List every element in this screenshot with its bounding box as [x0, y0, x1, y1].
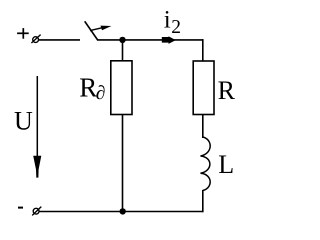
- svg-text:R: R: [218, 76, 236, 105]
- wire right vertical corner to R: [202, 39, 204, 61]
- svg-text:i: i: [164, 7, 171, 34]
- resistor Rd: [111, 61, 132, 115]
- svg-text:∂: ∂: [96, 83, 106, 104]
- terminal negative: [32, 207, 41, 216]
- resistor R: [193, 61, 214, 115]
- label + (plus of source): [17, 28, 29, 39]
- label - (minus of source): [18, 207, 23, 209]
- terminal positive: [31, 35, 40, 43]
- switch S blade: [85, 21, 98, 40]
- svg-text:U: U: [14, 106, 33, 135]
- switch closing arrow: [90, 26, 111, 31]
- wire R to inductor: [202, 115, 204, 139]
- current arrow i2: [162, 36, 176, 44]
- voltage arrow U: [33, 76, 41, 178]
- node junction top: [119, 37, 125, 43]
- node junction bottom: [120, 208, 126, 214]
- inductor L: [201, 137, 211, 191]
- svg-text:R: R: [79, 72, 97, 102]
- wire from switch to top-right corner: [97, 39, 203, 41]
- wire junction to Rd: [122, 40, 124, 62]
- svg-text:2: 2: [171, 17, 181, 38]
- wire inductor to bottom wire: [202, 190, 204, 212]
- wire from + terminal to switch: [39, 39, 80, 41]
- svg-text:L: L: [218, 150, 234, 179]
- bottom wire: [39, 211, 203, 213]
- wire Rd to bottom wire: [122, 115, 124, 213]
